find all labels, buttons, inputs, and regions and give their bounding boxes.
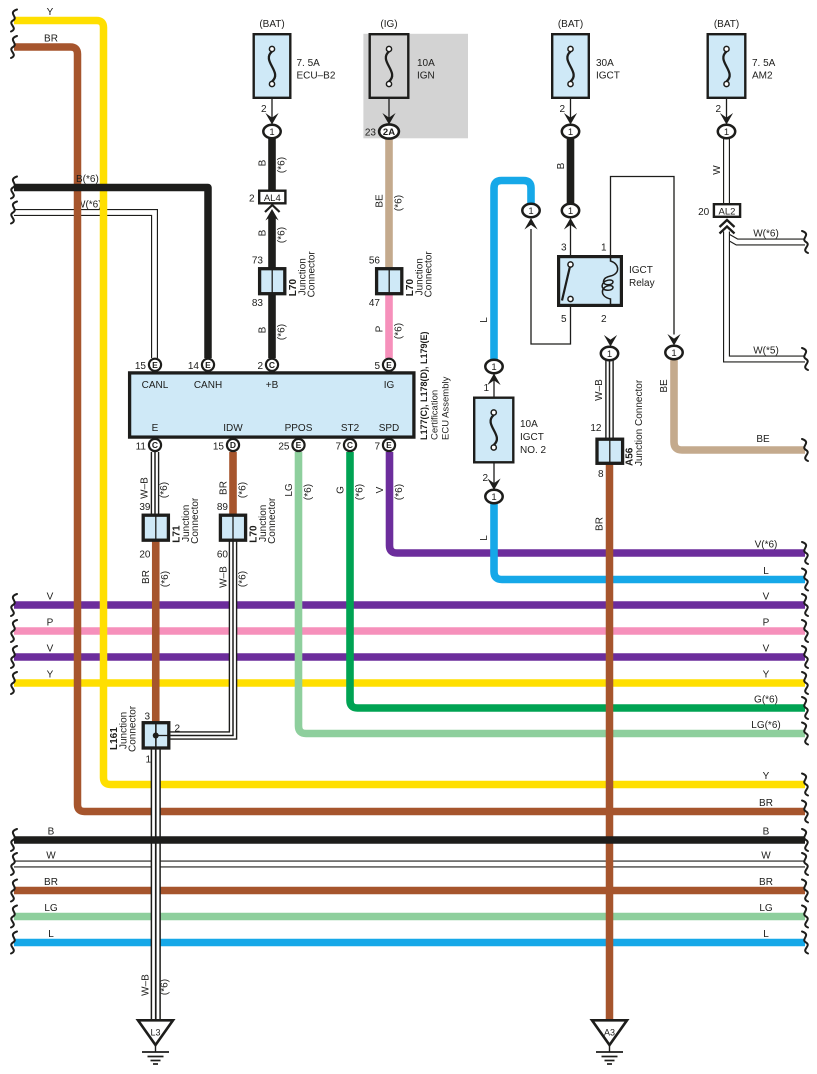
svg-text:B: B	[258, 229, 269, 236]
svg-text:(*6): (*6)	[160, 571, 171, 587]
svg-text:Connector: Connector	[190, 497, 201, 544]
node 1 BE above right branch	[665, 334, 682, 359]
svg-text:15: 15	[135, 361, 147, 372]
svg-text:1: 1	[491, 362, 496, 373]
svg-text:W–B: W–B	[219, 566, 230, 588]
svg-text:2: 2	[482, 473, 488, 484]
svg-text:B: B	[258, 326, 269, 333]
svg-text:2: 2	[715, 104, 721, 115]
svg-text:IGCT: IGCT	[629, 265, 653, 276]
svg-text:83: 83	[252, 298, 264, 309]
wire B full-width bottom	[11, 827, 808, 852]
svg-text:Y: Y	[47, 670, 54, 681]
svg-text:(*6): (*6)	[238, 482, 249, 498]
node 1 above junction A56	[601, 335, 618, 360]
svg-text:ECU–B2: ECU–B2	[297, 71, 336, 82]
svg-text:C: C	[269, 360, 275, 370]
svg-text:2A: 2A	[383, 127, 395, 138]
svg-text:(*6): (*6)	[355, 484, 366, 500]
svg-text:BE: BE	[756, 434, 770, 445]
svg-text:PPOS: PPOS	[285, 423, 313, 434]
svg-text:20: 20	[698, 207, 710, 218]
svg-text:2: 2	[559, 104, 565, 115]
svg-text:V: V	[763, 592, 770, 603]
svg-text:L: L	[48, 929, 54, 940]
svg-text:P: P	[47, 618, 54, 629]
svg-text:IDW: IDW	[223, 423, 243, 434]
svg-text:W: W	[46, 851, 56, 862]
svg-text:1: 1	[607, 349, 612, 360]
svg-text:ST2: ST2	[341, 423, 360, 434]
wire B AL4 to junction L70 pin 73	[252, 209, 288, 268]
svg-text:BR: BR	[219, 481, 230, 495]
svg-text:G: G	[336, 486, 347, 494]
ground L3	[138, 1020, 173, 1064]
svg-text:(*6): (*6)	[159, 482, 170, 498]
svg-text:5: 5	[374, 361, 380, 372]
svg-text:1: 1	[491, 492, 496, 503]
pin 23 connector 2A below fuse IGN	[365, 99, 399, 139]
svg-text:CANL: CANL	[142, 380, 169, 391]
svg-text:2: 2	[249, 194, 255, 205]
wire W(*6) from left edge to ECU pin CANL	[11, 200, 155, 359]
svg-text:W(*5): W(*5)	[753, 346, 779, 357]
wire B junction L70 pin 83 to ECU pin +B	[252, 295, 288, 358]
wire V from left edge to right edge	[11, 592, 808, 617]
node 1 below fuse IGCT NO.2	[485, 490, 502, 503]
wire BE node to right edge	[659, 360, 808, 462]
svg-text:(BAT): (BAT)	[558, 19, 583, 30]
svg-text:LG(*6): LG(*6)	[751, 720, 780, 731]
relay IGCT Relay	[559, 243, 655, 326]
wire L fuse IGCT NO.2 to right edge	[479, 503, 808, 591]
svg-text:11: 11	[136, 442, 147, 453]
svg-text:15: 15	[213, 442, 225, 453]
svg-text:C: C	[347, 440, 353, 450]
svg-text:47: 47	[369, 298, 381, 309]
wire relay pin 3 from node	[570, 222, 572, 256]
svg-text:V: V	[763, 644, 770, 655]
svg-text:L177(C), L178(D), L179(E): L177(C), L178(D), L179(E)	[419, 331, 429, 440]
svg-text:23: 23	[365, 128, 377, 139]
svg-text:(BAT): (BAT)	[714, 19, 739, 30]
wire relay pin 1 loop to BE node	[611, 177, 675, 335]
wire BR junction A56 pin 8 to ground A3	[595, 465, 610, 1021]
svg-text:E: E	[296, 440, 302, 450]
svg-text:BR: BR	[759, 798, 773, 809]
svg-text:B: B	[556, 162, 567, 169]
wire W-B relay pin 2 to junction A56 pin 12	[590, 361, 609, 439]
svg-text:7. 5A: 7. 5A	[297, 58, 321, 69]
wire V ECU pin SPD to right edge	[375, 452, 808, 564]
svg-text:(BAT): (BAT)	[259, 19, 284, 30]
svg-text:+B: +B	[266, 380, 279, 391]
svg-text:3: 3	[144, 712, 150, 723]
svg-text:BR: BR	[141, 570, 152, 584]
svg-text:W–B: W–B	[140, 477, 151, 499]
svg-text:20: 20	[139, 550, 151, 561]
fuse 10A IGCT NO.2	[474, 398, 546, 463]
svg-text:BE: BE	[659, 379, 670, 393]
svg-text:W–B: W–B	[594, 379, 605, 401]
ECU pin 15 IDW	[213, 439, 239, 453]
svg-text:L3: L3	[150, 1028, 160, 1038]
svg-text:(*6): (*6)	[277, 157, 288, 173]
wire W-B junction L70 pin 60 to junction L161 pin 2	[170, 541, 248, 736]
ECU pin 14 CANH	[188, 359, 214, 372]
svg-text:BR: BR	[44, 877, 58, 888]
svg-text:Y: Y	[763, 670, 770, 681]
svg-text:39: 39	[139, 502, 151, 513]
svg-text:1: 1	[568, 127, 573, 138]
svg-text:E: E	[152, 360, 158, 370]
pin 2 of fuse IGCT	[559, 99, 577, 125]
wire P from left edge to right edge	[11, 618, 808, 643]
wire L full-width bottom	[11, 929, 808, 954]
svg-text:SPD: SPD	[379, 423, 400, 434]
svg-text:Y: Y	[47, 7, 54, 18]
svg-text:C: C	[152, 440, 158, 450]
svg-text:2: 2	[257, 361, 263, 372]
svg-text:Relay: Relay	[629, 278, 655, 289]
svg-text:LG: LG	[44, 903, 58, 914]
fuse 7.5A AM2	[708, 19, 776, 98]
svg-text:1: 1	[269, 127, 274, 138]
svg-text:B: B	[258, 159, 269, 166]
junction connector L70 second	[377, 251, 435, 298]
svg-text:E: E	[386, 360, 392, 370]
svg-text:Junction Connector: Junction Connector	[634, 379, 645, 466]
svg-text:(*6): (*6)	[238, 571, 249, 587]
ground A3	[592, 1020, 627, 1064]
svg-text:NO. 2: NO. 2	[520, 445, 547, 456]
svg-text:12: 12	[590, 423, 602, 434]
wire B(*6) from left edge to ECU pin CANH	[11, 174, 208, 358]
svg-text:IGCT: IGCT	[520, 432, 544, 443]
pin 2 of fuse ECU-B2	[261, 99, 279, 125]
svg-text:14: 14	[188, 361, 200, 372]
wire L from relay node down to fuse IGCT NO.2	[479, 181, 531, 361]
svg-text:(*6): (*6)	[160, 979, 171, 995]
svg-text:7: 7	[374, 442, 380, 453]
svg-text:B(*6): B(*6)	[76, 174, 99, 185]
wire BR full-width bottom	[11, 877, 808, 902]
wire LG ECU pin PPOS to right edge	[284, 452, 808, 745]
svg-text:7. 5A: 7. 5A	[752, 58, 776, 69]
svg-text:2: 2	[175, 724, 181, 735]
ECU pin 5 IG	[374, 359, 395, 372]
wire W full-width bottom	[11, 851, 808, 876]
svg-text:1: 1	[601, 243, 607, 254]
svg-text:Connector: Connector	[128, 705, 139, 752]
svg-text:1: 1	[483, 383, 489, 394]
junction connector L70 first	[260, 251, 318, 298]
svg-text:W–B: W–B	[141, 974, 152, 996]
node 1 above relay pin 3	[562, 204, 579, 230]
fuse 7.5A ECU-B2	[254, 19, 336, 98]
svg-text:Connector: Connector	[306, 251, 317, 298]
svg-text:5: 5	[561, 314, 567, 325]
svg-text:8: 8	[598, 469, 604, 480]
ECU pin 7 ST2	[335, 439, 356, 453]
svg-text:(*6): (*6)	[394, 323, 405, 339]
svg-text:V: V	[375, 486, 386, 493]
connector AL4	[249, 191, 285, 212]
junction connector A56	[597, 379, 645, 480]
svg-text:D: D	[230, 440, 236, 450]
svg-text:Certification: Certification	[430, 390, 441, 440]
svg-text:AL2: AL2	[719, 206, 736, 217]
svg-text:10A: 10A	[520, 419, 538, 430]
svg-text:E: E	[152, 423, 159, 434]
node 1 above fuse IGCT NO.2	[483, 360, 502, 397]
svg-text:ECU Assembly: ECU Assembly	[441, 376, 452, 440]
connector AL2 pin 20	[698, 204, 740, 233]
svg-text:2: 2	[261, 104, 267, 115]
svg-text:E: E	[205, 360, 211, 370]
wire W-B junction L161 pin 1 to ground L3	[141, 750, 171, 1021]
wire P junction L70 pin 47 to ECU pin IG	[369, 295, 405, 358]
svg-text:60: 60	[217, 550, 229, 561]
svg-text:25: 25	[278, 442, 290, 453]
ECU pin 11 E	[136, 439, 161, 453]
svg-text:BR: BR	[44, 34, 58, 45]
wire LG full-width bottom	[11, 903, 808, 928]
wire relay pin 5 loop to node under L	[531, 229, 571, 344]
svg-text:(*6): (*6)	[303, 484, 314, 500]
svg-text:56: 56	[369, 256, 381, 267]
svg-text:(*6): (*6)	[394, 195, 405, 211]
node 1 below fuse AM2	[718, 125, 735, 138]
svg-text:2: 2	[601, 314, 607, 325]
svg-text:AM2: AM2	[752, 71, 773, 82]
svg-text:L: L	[479, 317, 490, 323]
svg-text:89: 89	[217, 502, 229, 513]
svg-text:Connector: Connector	[267, 497, 278, 544]
svg-text:1: 1	[568, 206, 573, 217]
ECU pin 2 +B	[257, 359, 278, 372]
svg-text:AL4: AL4	[264, 193, 281, 204]
svg-text:A3: A3	[604, 1028, 615, 1038]
svg-text:W: W	[712, 165, 723, 175]
svg-text:7: 7	[335, 442, 341, 453]
svg-text:B: B	[763, 827, 770, 838]
svg-text:IGN: IGN	[417, 71, 435, 82]
svg-text:Y: Y	[763, 771, 770, 782]
wire V second from left edge to right edge	[11, 644, 808, 669]
svg-text:(*6): (*6)	[277, 324, 288, 340]
svg-text:G(*6): G(*6)	[754, 695, 778, 706]
svg-text:1: 1	[671, 348, 676, 359]
svg-text:W(*6): W(*6)	[753, 229, 779, 240]
svg-text:30A: 30A	[596, 58, 614, 69]
wire BR junction L71 pin 20 to junction L161 pin 3	[139, 541, 171, 722]
wire W fuse AM2 to AL2	[712, 139, 727, 204]
fuse 30A IGCT	[552, 19, 620, 98]
node 1 below fuse IGCT	[562, 125, 579, 138]
wire G ECU pin ST2 to right edge	[336, 452, 809, 719]
svg-text:3: 3	[561, 243, 567, 254]
pin 2 of fuse AM2	[715, 99, 733, 125]
node 1 on wire L above relay pin 5 branch	[522, 204, 539, 230]
svg-text:Connector: Connector	[423, 251, 434, 298]
svg-text:P: P	[763, 618, 770, 629]
svg-text:E: E	[386, 440, 392, 450]
ECU pin 15 CANL	[135, 359, 161, 372]
wire W-B ECU pin E to junction L71 pin 39	[139, 452, 170, 514]
node 1 below fuse ECU-B2	[263, 125, 280, 138]
svg-text:73: 73	[252, 256, 264, 267]
svg-text:(IG): (IG)	[380, 19, 397, 30]
svg-text:P: P	[375, 325, 386, 332]
wire B fuse IGCT to relay node	[556, 139, 571, 205]
svg-text:BR: BR	[595, 517, 606, 531]
wire Y from left edge down and across to right edge	[11, 7, 808, 796]
svg-text:IG: IG	[384, 380, 395, 391]
svg-text:V(*6): V(*6)	[755, 540, 778, 551]
wire BE fuse IGN to junction L70 pin 56	[369, 139, 405, 269]
svg-text:1: 1	[724, 127, 729, 138]
svg-text:LG: LG	[284, 483, 295, 497]
wire B fuse ECU-B2 to AL4	[258, 139, 288, 191]
svg-text:BE: BE	[375, 194, 386, 208]
svg-text:(*6): (*6)	[277, 227, 288, 243]
wire Y horizontal from left edge to right edge	[11, 670, 808, 695]
svg-text:W: W	[761, 851, 771, 862]
wire BR from left edge down and across to right edge	[11, 34, 808, 823]
junction connector L70 third	[220, 497, 278, 544]
svg-text:V: V	[47, 644, 54, 655]
svg-text:LG: LG	[759, 903, 773, 914]
ECU pin 25 PPOS	[278, 439, 304, 453]
svg-text:L: L	[763, 929, 769, 940]
IGN fuse gray background panel	[363, 34, 468, 139]
svg-text:L: L	[763, 566, 769, 577]
svg-text:10A: 10A	[417, 58, 435, 69]
wire BR ECU pin IDW to junction L70 pin 89	[217, 452, 249, 514]
svg-text:L: L	[479, 535, 490, 541]
pin 2 of fuse IGCT NO.2	[482, 464, 500, 491]
junction connector L71	[143, 497, 201, 544]
svg-text:IGCT: IGCT	[596, 71, 620, 82]
fuse 10A IGN	[370, 19, 435, 98]
svg-text:B: B	[48, 827, 55, 838]
wire W(*5) from AL2 to right edge	[727, 234, 809, 370]
svg-text:BR: BR	[759, 877, 773, 888]
wire W(*6) branch from AL2 to right edge	[727, 229, 809, 254]
ECU assembly L177(C) L178(D) L179(E)	[130, 331, 452, 440]
svg-text:1: 1	[145, 755, 151, 766]
ECU pin 7 SPD	[374, 439, 395, 453]
junction connector L161	[109, 705, 181, 765]
svg-text:V: V	[47, 592, 54, 603]
svg-text:CANH: CANH	[194, 380, 222, 391]
svg-text:1: 1	[528, 206, 533, 217]
svg-text:(*6): (*6)	[394, 484, 405, 500]
